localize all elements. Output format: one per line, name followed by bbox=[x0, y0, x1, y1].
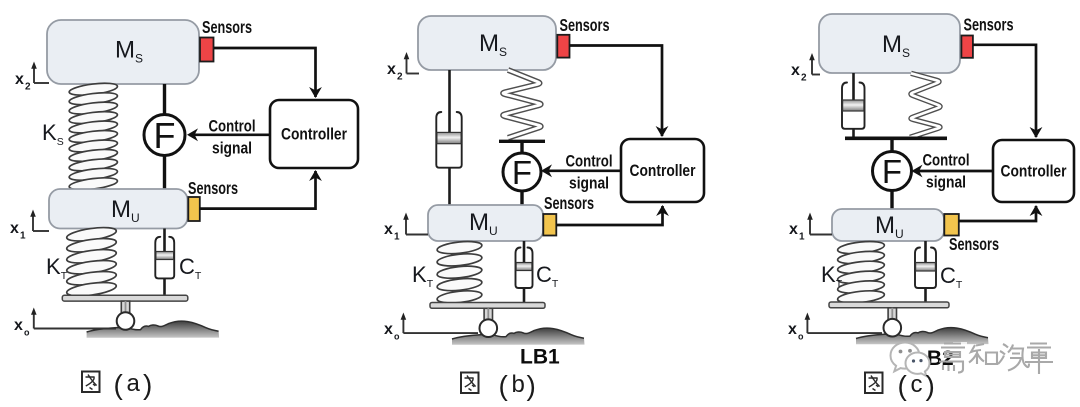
spring base bar (b) bbox=[499, 140, 545, 143]
svg-text:Sensors: Sensors bbox=[560, 15, 610, 35]
damper CT (a) bbox=[155, 229, 174, 297]
actuator rod upper (a) bbox=[163, 84, 166, 116]
parallel base bar (c) bbox=[845, 137, 947, 141]
mass MS (a) bbox=[47, 20, 199, 84]
spring KT (a) bbox=[66, 225, 117, 298]
label Sensors bottom right (c) bbox=[949, 234, 999, 254]
spring KS (b) bbox=[503, 70, 541, 138]
sensor box red sensor on MS (b) bbox=[557, 35, 569, 58]
svg-text:Control: Control bbox=[209, 118, 256, 136]
road mound (a) bbox=[87, 321, 220, 338]
controller box (a) bbox=[270, 100, 358, 168]
label Control signal (a) bbox=[209, 118, 256, 158]
watermark wechat logo bubbles bbox=[891, 342, 968, 376]
spring KT (c) bbox=[837, 240, 885, 305]
svg-text:2: 2 bbox=[397, 72, 403, 83]
svg-text:(: ( bbox=[114, 369, 124, 400]
sensor box yellow sensor on MU (a) bbox=[188, 197, 200, 221]
damper CT (b) bbox=[516, 241, 533, 303]
damper CT (c) bbox=[915, 241, 936, 303]
svg-text:signal: signal bbox=[569, 175, 609, 193]
mass MU (a) bbox=[49, 189, 188, 229]
svg-text:(: ( bbox=[499, 370, 509, 401]
svg-text:signal: signal bbox=[926, 174, 966, 192]
svg-text:1: 1 bbox=[799, 232, 805, 243]
ground/road assembly (a) : plate bbox=[62, 295, 188, 301]
svg-text:Sensors: Sensors bbox=[964, 15, 1014, 35]
svg-text:a: a bbox=[127, 370, 141, 397]
ground/road assembly (b) : plate bbox=[430, 303, 545, 309]
damper (c) bbox=[842, 73, 865, 138]
axis mark x0 (b) bbox=[384, 313, 478, 342]
wheel (a) bbox=[117, 312, 135, 330]
axis mark x1 (b) bbox=[384, 213, 428, 243]
svg-text:x: x bbox=[14, 317, 23, 334]
wheel post (c) bbox=[888, 308, 896, 320]
svg-text:F: F bbox=[512, 154, 532, 191]
axis mark x1 (a) bbox=[10, 210, 49, 242]
svg-text:): ) bbox=[926, 370, 935, 401]
svg-text:o: o bbox=[798, 332, 804, 342]
svg-text:1: 1 bbox=[20, 231, 26, 242]
svg-text:F: F bbox=[154, 115, 176, 156]
wire sensor MU to controller (c) bbox=[959, 205, 1043, 221]
road mound (b) bbox=[452, 328, 585, 345]
svg-text:b: b bbox=[512, 371, 525, 398]
caption 图 (b) bbox=[461, 373, 479, 394]
label CT (c) bbox=[940, 263, 963, 291]
wire sensor MS to controller (b) bbox=[570, 46, 669, 138]
label Sensors top (b) bbox=[560, 15, 610, 35]
label KT (a) bbox=[46, 254, 68, 282]
label LB1 bbox=[520, 346, 560, 369]
label LB2 bbox=[914, 347, 954, 370]
axis mark x2 (c) bbox=[791, 53, 820, 84]
svg-text:2: 2 bbox=[801, 73, 807, 84]
wire sensor MS to controller (a) bbox=[214, 48, 322, 98]
actuator rod lower (c) bbox=[890, 191, 893, 211]
road mound (c) bbox=[856, 328, 989, 345]
axis mark x0 (a) bbox=[14, 308, 116, 338]
axis mark x2 (a) bbox=[15, 62, 49, 93]
control signal arrow (c) bbox=[912, 165, 994, 178]
force actuator F (a) bbox=[144, 115, 185, 156]
svg-text:Control: Control bbox=[923, 152, 970, 170]
mass MU (b) bbox=[428, 205, 543, 241]
svg-text:signal: signal bbox=[212, 140, 252, 158]
controller box (c) bbox=[993, 140, 1074, 202]
control signal arrow (b) bbox=[541, 164, 621, 177]
svg-text:x: x bbox=[15, 71, 24, 88]
mass MS (c) bbox=[819, 14, 960, 73]
svg-text:x: x bbox=[384, 221, 393, 238]
mass MU (c) bbox=[832, 209, 944, 241]
sensor box yellow sensor on MU (b) bbox=[543, 214, 556, 236]
svg-text:): ) bbox=[527, 370, 536, 401]
svg-text:Sensors: Sensors bbox=[188, 178, 238, 198]
label KT (c) bbox=[821, 262, 843, 290]
svg-text:x: x bbox=[384, 321, 393, 338]
svg-text:x: x bbox=[387, 61, 396, 78]
svg-text:Control: Control bbox=[566, 153, 613, 171]
label Sensors top (a) bbox=[202, 17, 252, 37]
label KS (a) bbox=[42, 120, 64, 148]
svg-text:x: x bbox=[10, 220, 19, 237]
axis mark x0 (c) bbox=[788, 313, 882, 342]
sensor box red sensor on MS (a) bbox=[200, 38, 214, 62]
sensor box red sensor on MS (c) bbox=[961, 36, 973, 58]
label Sensors top (c) bbox=[964, 15, 1014, 35]
svg-text:o: o bbox=[24, 328, 30, 338]
svg-text:Controller: Controller bbox=[281, 125, 347, 144]
spring KS (c) bbox=[910, 73, 940, 137]
actuator rod upper (c) bbox=[890, 138, 893, 153]
label KT (b) bbox=[412, 262, 434, 290]
mass MS (b) bbox=[418, 16, 556, 70]
svg-text:c: c bbox=[911, 371, 923, 398]
label Control signal (c) bbox=[923, 152, 970, 192]
svg-text:1: 1 bbox=[394, 232, 400, 243]
label CT (a) bbox=[179, 254, 202, 282]
svg-text:o: o bbox=[394, 332, 400, 342]
control signal arrow (a) bbox=[187, 128, 270, 141]
axis mark x1 (c) bbox=[789, 213, 832, 243]
actuator rod upper (b) bbox=[520, 141, 523, 154]
force actuator F (c) bbox=[873, 152, 912, 191]
actuator rod lower (b) bbox=[520, 191, 523, 206]
label CT (b) bbox=[536, 262, 559, 290]
actuator rod lower (a) bbox=[163, 156, 166, 191]
sensor box yellow sensor on MU (c) bbox=[944, 214, 959, 236]
wire sensor MU to controller (a) bbox=[200, 170, 322, 209]
axis mark x2 (b) bbox=[387, 52, 419, 83]
svg-text:x: x bbox=[789, 221, 798, 238]
wheel post (b) bbox=[484, 308, 492, 320]
svg-text:): ) bbox=[143, 369, 152, 400]
wire sensor MU to controller (b) bbox=[556, 205, 669, 225]
wire sensor MS to controller (c) bbox=[973, 45, 1043, 138]
force actuator F (b) bbox=[503, 153, 541, 191]
ground/road assembly (c) : plate bbox=[829, 302, 949, 308]
svg-text:Sensors: Sensors bbox=[202, 17, 252, 37]
watermark text 焉知汽车 bbox=[939, 344, 1053, 375]
spring KS (a) bbox=[69, 81, 119, 192]
label Control signal (b) bbox=[566, 153, 613, 193]
svg-text:Sensors: Sensors bbox=[949, 234, 999, 254]
svg-text:x: x bbox=[788, 321, 797, 338]
damper (b) bbox=[436, 70, 461, 206]
svg-text:Controller: Controller bbox=[630, 161, 696, 180]
label Sensors middle (b) bbox=[544, 193, 594, 213]
caption 图 (a) bbox=[82, 372, 100, 393]
controller box (b) bbox=[621, 139, 704, 202]
svg-text:2: 2 bbox=[25, 82, 31, 93]
svg-text:LB1: LB1 bbox=[520, 346, 560, 369]
svg-text:x: x bbox=[791, 62, 800, 79]
wheel post (a) bbox=[121, 301, 129, 313]
spring KT (b) bbox=[437, 240, 483, 305]
svg-text:Controller: Controller bbox=[1001, 162, 1067, 181]
svg-text:F: F bbox=[882, 153, 902, 190]
caption 图 (c) bbox=[865, 373, 883, 394]
label Sensors bottom (a) bbox=[188, 178, 238, 198]
wheel (c) bbox=[884, 319, 902, 337]
svg-text:Sensors: Sensors bbox=[544, 193, 594, 213]
svg-text:(: ( bbox=[898, 370, 908, 401]
wheel (b) bbox=[480, 319, 498, 337]
